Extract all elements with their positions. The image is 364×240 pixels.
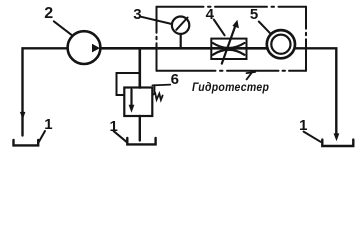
leader for label 6 xyxy=(152,84,170,87)
gauge needle xyxy=(176,18,187,30)
leader for left label 1 xyxy=(38,131,45,143)
enclosure Hydrotester dash-dot top border xyxy=(157,6,307,8)
leader for label 3 xyxy=(141,17,171,24)
label 3 xyxy=(133,6,141,23)
wire pump outlet to flow meter (main pressure line) xyxy=(101,47,268,50)
enclosure bottom border xyxy=(157,70,307,72)
pressure gauge U3 circle xyxy=(172,17,189,34)
leader tick for Hydrotester caption xyxy=(247,72,256,80)
relief valve internal arrow shaft xyxy=(130,90,132,107)
enclosure left border xyxy=(156,7,158,71)
leader for right label 1 xyxy=(304,132,321,142)
leader for label 4 xyxy=(214,20,225,36)
relief valve U6 body square xyxy=(124,88,152,117)
throttle top arc xyxy=(213,43,245,48)
flow arrow on left wire xyxy=(20,112,26,120)
gauge stem xyxy=(180,34,182,47)
relief valve pilot line xyxy=(117,73,140,95)
relief valve internal arrow head xyxy=(129,105,135,113)
wire pump suction line (left) xyxy=(23,48,68,135)
relief valve spring xyxy=(153,93,163,100)
label 4 xyxy=(206,6,214,23)
leader for label 5 xyxy=(259,22,270,34)
label 5 xyxy=(250,6,258,23)
enclosure right border xyxy=(305,7,307,71)
tank T1 left xyxy=(14,140,39,145)
flow arrow on right wire xyxy=(334,133,340,141)
flow meter inner circle xyxy=(271,35,290,54)
caption Hydrotester xyxy=(192,80,269,94)
node junction to relief valve xyxy=(139,48,142,87)
pump rotor triangle xyxy=(92,44,100,53)
wire relief valve to tank xyxy=(139,116,141,141)
tank T1 middle xyxy=(127,138,155,145)
throttle arrow head xyxy=(232,20,239,28)
pump U2 circle xyxy=(68,31,101,64)
wire flow meter to right tank xyxy=(295,48,336,134)
leader for label 6 vertical tail xyxy=(154,85,156,92)
throttle valve U4 body rect xyxy=(211,39,246,59)
label 6 xyxy=(171,71,179,88)
label 1 left tank xyxy=(44,116,52,133)
label 1 right tank xyxy=(299,117,307,134)
leader for label 2 xyxy=(54,21,72,35)
tank T1 right xyxy=(322,140,353,146)
label 2 xyxy=(44,5,53,23)
throttle adjustment arrow shaft xyxy=(222,25,236,64)
flow meter U5 outer circle xyxy=(267,30,295,58)
leader for middle label 1 xyxy=(114,131,127,142)
throttle bottom arc xyxy=(213,50,245,55)
label 1 middle tank xyxy=(110,118,118,135)
